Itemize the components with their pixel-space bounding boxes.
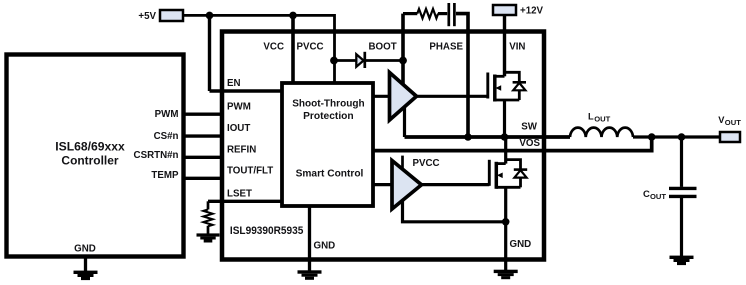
wire SW rail: [405, 135, 571, 139]
driver A2 (low side): [392, 161, 422, 210]
svg-text:VOS: VOS: [519, 138, 540, 149]
svg-text:PVCC: PVCC: [413, 158, 440, 169]
wire Q2 source to GND: [504, 187, 507, 270]
capacitor C-boot: [449, 3, 455, 26]
ground (controller): [74, 257, 98, 281]
svg-text:EN: EN: [227, 78, 241, 89]
ground (LSET): [197, 233, 220, 242]
svg-text:GND: GND: [314, 240, 336, 251]
svg-text:OUT: OUT: [725, 118, 741, 127]
wire SW down to Q2 drain: [504, 137, 507, 164]
svg-text:GND: GND: [74, 243, 96, 254]
wire Q1 source to SW: [503, 100, 506, 137]
junction dot PHASE/SW: [464, 133, 472, 141]
ground (COUT): [670, 256, 694, 266]
ground (module mid): [298, 270, 322, 280]
controller block ISL68/69xxx: [7, 55, 184, 257]
inductor LOUT: [570, 128, 633, 137]
wire EN drop: [208, 15, 211, 91]
wire VCC drop: [291, 15, 295, 84]
svg-text:GND: GND: [510, 239, 532, 250]
svg-text:PWM: PWM: [155, 109, 179, 120]
svg-text:Protection: Protection: [303, 111, 354, 122]
svg-text:REFIN: REFIN: [227, 145, 256, 156]
wire PWM (controller to module): [185, 112, 282, 115]
junction dot GND: [502, 218, 510, 226]
wire cap to PHASE riser: [456, 14, 468, 137]
svg-text:+5V: +5V: [138, 11, 156, 22]
wire EN pin: [210, 89, 283, 92]
wire RC top left: [403, 12, 417, 15]
wire driver A2 return: [403, 200, 506, 222]
wire diode net: [335, 59, 404, 62]
svg-text:Smart Control: Smart Control: [296, 169, 364, 180]
power module block ISL99390R5935: [222, 32, 544, 260]
junction dot VOS node: [648, 133, 656, 141]
MOSFET Q1 high-side: [488, 73, 520, 102]
svg-text:ISL99390R5935: ISL99390R5935: [230, 225, 304, 237]
junction dot COUT node: [678, 133, 686, 141]
wire SW to VOUT: [633, 135, 720, 138]
wire LSET drop: [207, 201, 210, 209]
svg-text:+12V: +12V: [520, 6, 544, 17]
svg-text:LSET: LSET: [227, 189, 252, 200]
svg-text:PVCC: PVCC: [297, 42, 324, 53]
junction dot BOOT: [399, 57, 407, 65]
wire PVCC stub: [401, 156, 404, 170]
wire driver A1 input: [373, 95, 390, 98]
resistor R-boot: [417, 9, 438, 18]
svg-text:CS#n: CS#n: [154, 131, 179, 142]
+5V terminal: [160, 10, 183, 21]
wire VIN drop: [503, 15, 506, 76]
MOSFET Q2 low-side: [489, 160, 520, 189]
VOUT terminal: [720, 132, 740, 142]
wire driver A1 return to SW: [403, 108, 406, 138]
wire LSET pin: [208, 200, 282, 203]
wire to ground: [207, 226, 210, 234]
wire GND mid drop: [308, 206, 311, 271]
wire TEMP / TOUT-FLT: [185, 177, 282, 180]
svg-text:L: L: [588, 112, 594, 122]
wire BOOT riser + to driver: [401, 14, 405, 85]
svg-text:PHASE: PHASE: [429, 41, 463, 52]
svg-text:C: C: [643, 189, 650, 200]
wire resistor to cap: [438, 12, 447, 15]
svg-text:TEMP: TEMP: [151, 170, 179, 181]
svg-text:ISL68/69xxx: ISL68/69xxx: [55, 141, 125, 154]
diode boot: [356, 52, 365, 68]
svg-text:SW: SW: [521, 121, 538, 132]
junction dot: [289, 12, 297, 20]
body diode D-Q2: [506, 160, 528, 188]
+12V terminal: [493, 5, 516, 15]
body diode D-Q1: [505, 72, 527, 100]
svg-text:PWM: PWM: [227, 102, 251, 113]
svg-text:VCC: VCC: [263, 42, 284, 53]
junction dot: [206, 12, 214, 20]
svg-text:OUT: OUT: [594, 114, 610, 123]
wire driver A2 input: [373, 183, 392, 186]
svg-text:TOUT/FLT: TOUT/FLT: [227, 166, 273, 177]
wire driver A2 output to gate: [422, 183, 490, 186]
svg-text:CSRTN#n: CSRTN#n: [134, 150, 179, 161]
svg-text:Controller: Controller: [61, 155, 119, 168]
wire CS#n / IOUT: [185, 134, 282, 137]
svg-text:VIN: VIN: [509, 42, 525, 53]
ground (module right): [494, 270, 518, 280]
svg-text:OUT: OUT: [650, 192, 666, 201]
junction dot Q1/SW: [501, 133, 509, 141]
driver A1 (high side): [390, 73, 417, 121]
resistor R-LSET: [203, 210, 212, 227]
wire VOS: [373, 137, 652, 151]
svg-text:Shoot-Through: Shoot-Through: [292, 98, 364, 109]
capacitor COUT: [669, 137, 697, 256]
wire CSRTN#n / REFIN: [185, 156, 282, 159]
svg-text:BOOT: BOOT: [369, 42, 397, 53]
wire driver A1 output to gate: [417, 95, 488, 98]
wire +5V rail and PVCC drop: [183, 15, 335, 84]
control block (Shoot-Through / Smart Control): [282, 83, 373, 206]
svg-text:IOUT: IOUT: [227, 123, 250, 134]
junction dot PVCC/diode: [330, 57, 338, 65]
